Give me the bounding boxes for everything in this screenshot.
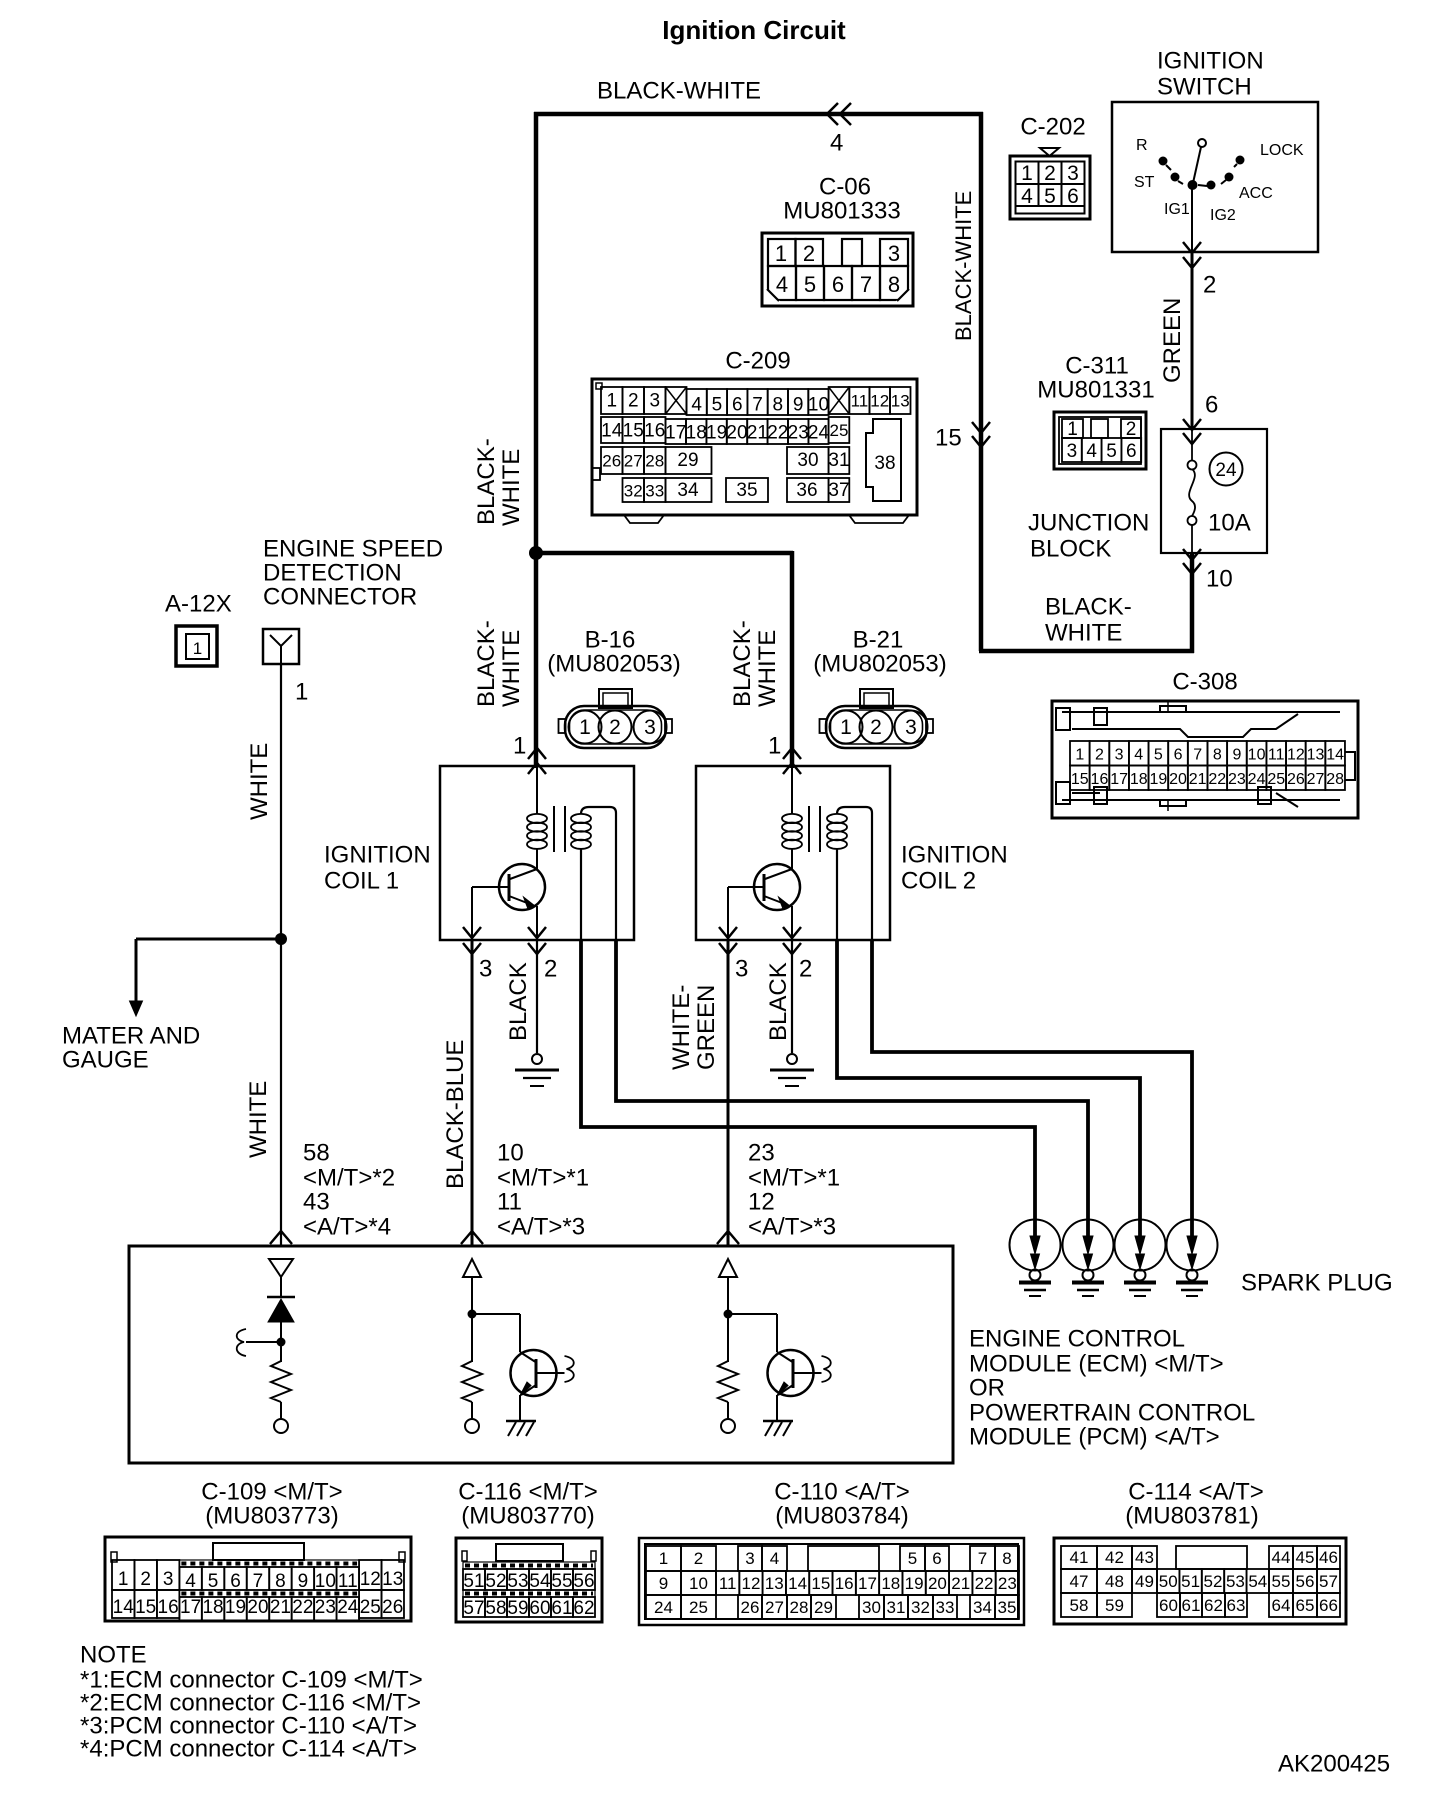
svg-text:9: 9 <box>298 1571 309 1592</box>
connector arrows into junction block pin 6 <box>1183 419 1201 430</box>
svg-text:54: 54 <box>529 1571 551 1592</box>
svg-text:27: 27 <box>624 452 643 471</box>
svg-text:21: 21 <box>270 1597 291 1618</box>
C-110 row1 pins 7-8 <box>970 1546 995 1571</box>
svg-text:1: 1 <box>118 1569 129 1590</box>
wire: BLACK-BLUE coil1 pin3 to ECM <box>471 940 474 1246</box>
svg-text:10: 10 <box>497 1140 524 1167</box>
svg-text:1: 1 <box>1067 419 1078 440</box>
C-110 row3 pins 26-29 <box>738 1595 762 1619</box>
connector arrows into ignition coil 2 pin 1 <box>783 748 801 759</box>
svg-text:9: 9 <box>659 1574 668 1593</box>
ignition coil 1 box <box>440 766 634 940</box>
svg-text:BLACK-: BLACK- <box>729 620 756 707</box>
wire: right vertical BLACK-WHITE from junction block loop <box>979 112 984 651</box>
svg-text:35: 35 <box>998 1598 1017 1617</box>
ignition switch box <box>1112 102 1318 252</box>
svg-text:17: 17 <box>180 1597 201 1618</box>
spark plug 1 <box>1010 1220 1061 1271</box>
C-308 side latch <box>1345 752 1355 780</box>
svg-text:20: 20 <box>726 423 747 444</box>
svg-text:25: 25 <box>360 1597 381 1618</box>
svg-text:47: 47 <box>1070 1572 1089 1591</box>
svg-text:13: 13 <box>765 1574 784 1593</box>
wire Q2 col3 <box>727 1277 729 1362</box>
wire: coil2 secondary to spark plug 3 <box>837 940 1140 1238</box>
C-209 row 4 pin 36 <box>787 478 829 502</box>
C-110 row3 pins 34-35 <box>970 1595 995 1619</box>
ignition coil 2 primary winding <box>791 766 793 814</box>
svg-text:3: 3 <box>1115 747 1124 764</box>
spark plug 3 ground <box>1124 1281 1156 1285</box>
svg-text:24: 24 <box>337 1597 359 1618</box>
svg-text:5: 5 <box>208 1571 219 1592</box>
wire to driver transistor Q1 col2 <box>472 1313 520 1315</box>
C-209 row 3 pin 31 <box>829 447 850 474</box>
svg-text:(MU803770): (MU803770) <box>461 1503 594 1530</box>
resistor Q2 col3 <box>718 1358 738 1402</box>
svg-text:ENGINE SPEED: ENGINE SPEED <box>263 536 443 563</box>
wire col1 <box>280 1277 282 1297</box>
svg-text:1: 1 <box>193 639 202 658</box>
svg-text:22: 22 <box>767 423 788 444</box>
svg-text:12: 12 <box>742 1574 761 1593</box>
C-114 row3 pins 64-66 <box>1269 1593 1293 1617</box>
svg-text:42: 42 <box>1105 1548 1124 1567</box>
C-209 keyed cell X1 <box>666 387 687 414</box>
svg-text:14: 14 <box>113 1597 135 1618</box>
svg-text:15: 15 <box>135 1597 156 1618</box>
connector arrow into ECM pin 10/11 <box>461 1231 483 1244</box>
engine speed detection connector symbol <box>263 629 299 664</box>
svg-text:GREEN: GREEN <box>693 985 720 1070</box>
svg-text:13: 13 <box>1307 747 1325 764</box>
svg-text:14: 14 <box>601 421 623 442</box>
svg-text:BLOCK: BLOCK <box>1030 536 1111 563</box>
svg-text:WHITE: WHITE <box>498 630 525 707</box>
C-110 row3 pins 30-33 <box>859 1595 884 1619</box>
svg-text:SWITCH: SWITCH <box>1157 74 1252 101</box>
fuse number circle 24 <box>1210 453 1243 486</box>
svg-text:IGNITION: IGNITION <box>1157 48 1264 75</box>
svg-text:58: 58 <box>303 1140 330 1167</box>
svg-text:22: 22 <box>292 1597 313 1618</box>
ECM / PCM box <box>129 1246 953 1463</box>
svg-text:25: 25 <box>1267 771 1285 788</box>
ignition coil 1 base wire to pin 3 <box>472 886 509 888</box>
wire to driver transistor Q2 col3 <box>728 1313 777 1315</box>
connector B-16 cavity 2 <box>599 711 632 744</box>
svg-text:36: 36 <box>796 480 817 501</box>
svg-text:MODULE (PCM) <A/T>: MODULE (PCM) <A/T> <box>969 1424 1220 1451</box>
connector C-06 body <box>762 233 913 306</box>
svg-text:3: 3 <box>479 956 492 983</box>
C-110 row1 pins 1-2 <box>646 1546 681 1571</box>
svg-text:58: 58 <box>485 1598 506 1619</box>
svg-text:2: 2 <box>803 241 815 266</box>
svg-text:21: 21 <box>747 423 768 444</box>
svg-text:57: 57 <box>463 1598 484 1619</box>
svg-text:7: 7 <box>253 1571 264 1592</box>
svg-text:MATER AND: MATER AND <box>62 1023 200 1050</box>
svg-text:B-21: B-21 <box>853 627 904 654</box>
svg-text:10: 10 <box>689 1574 708 1593</box>
connector B-16 side tabs <box>559 719 566 733</box>
C-116 hatch strips <box>463 1562 595 1569</box>
C-109 pins 14-26 <box>112 1590 134 1618</box>
svg-text:COIL 2: COIL 2 <box>901 868 976 895</box>
C-110 row1 blank <box>808 1546 879 1571</box>
connector B-16 cavity 3 <box>634 711 667 744</box>
C-209 row 1 pins 11-13 <box>849 387 869 414</box>
svg-text:55: 55 <box>1272 1572 1291 1591</box>
svg-text:10: 10 <box>1248 747 1266 764</box>
svg-text:IGNITION: IGNITION <box>901 842 1008 869</box>
contact dot IG2 <box>1207 181 1216 190</box>
svg-text:6: 6 <box>230 1571 241 1592</box>
svg-text:6: 6 <box>1205 392 1218 419</box>
C-311 latch cell <box>1091 419 1108 438</box>
resistor Q1 col2 <box>462 1358 482 1402</box>
C-209 row 3 pins 26-28 <box>601 447 623 474</box>
svg-text:7: 7 <box>860 272 872 297</box>
svg-text:26: 26 <box>382 1597 403 1618</box>
svg-text:13: 13 <box>382 1569 403 1590</box>
svg-text:13: 13 <box>891 392 910 411</box>
svg-text:AK200425: AK200425 <box>1278 1751 1390 1778</box>
ground Q2 col3 <box>763 1420 793 1423</box>
svg-text:59: 59 <box>1105 1596 1124 1615</box>
svg-text:51: 51 <box>1181 1572 1200 1591</box>
arrow to meter and gauge <box>130 1001 143 1016</box>
C-209 row 2 pin 25 <box>829 417 850 443</box>
svg-text:24: 24 <box>654 1598 673 1617</box>
svg-text:C-114 <A/T>: C-114 <A/T> <box>1128 1479 1264 1506</box>
connector C-110 body <box>639 1538 1024 1625</box>
C-114 row3 pins 60-63 <box>1157 1593 1180 1617</box>
wire: BLACK coil2 pin2 to ground <box>791 940 793 1053</box>
svg-text:A-12X: A-12X <box>165 591 232 618</box>
C-110 row2 pins 11-23 <box>716 1571 739 1595</box>
svg-text:19: 19 <box>905 1574 924 1593</box>
ignition coil 1 power transistor <box>499 864 545 910</box>
svg-text:WHITE: WHITE <box>1045 620 1122 647</box>
svg-text:C-116 <M/T>: C-116 <M/T> <box>458 1479 598 1506</box>
svg-text:23: 23 <box>748 1140 775 1167</box>
ignition coil 2 core <box>808 806 810 852</box>
svg-text:GAUGE: GAUGE <box>62 1047 149 1074</box>
svg-text:43: 43 <box>1135 1548 1154 1567</box>
svg-text:12: 12 <box>748 1189 775 1216</box>
wire: left vertical feed to ignition coils <box>534 112 539 768</box>
svg-text:32: 32 <box>911 1598 930 1617</box>
svg-text:66: 66 <box>1319 1596 1338 1615</box>
svg-text:53: 53 <box>1226 1572 1245 1591</box>
C-116 pins 51-56 <box>463 1569 485 1590</box>
svg-text:8: 8 <box>888 272 900 297</box>
ignition coil 2 base wire to pin 3 <box>728 886 764 888</box>
svg-text:C-109 <M/T>: C-109 <M/T> <box>201 1479 342 1506</box>
connector arrows at ignition coil 2 pin 2 <box>783 927 801 938</box>
contact dot ACC <box>1225 173 1234 182</box>
C-209 row 4 pins 32-33 <box>623 478 645 502</box>
C-109 hatch strips <box>179 1560 359 1567</box>
svg-text:<M/T>*2: <M/T>*2 <box>303 1165 395 1192</box>
svg-text:6: 6 <box>1126 441 1137 462</box>
driver transistor Q1 col2 <box>511 1350 557 1396</box>
C-311 pin 2 <box>1121 419 1141 438</box>
ignition coil 1 secondary winding <box>571 814 591 823</box>
wire: WHITE-GREEN coil2 pin3 to ECM <box>727 940 730 1246</box>
svg-text:4: 4 <box>185 1571 196 1592</box>
svg-text:CONNECTOR: CONNECTOR <box>263 584 417 611</box>
ignition coil 1 primary winding <box>536 766 538 814</box>
svg-text:26: 26 <box>741 1598 760 1617</box>
svg-text:1: 1 <box>1075 747 1084 764</box>
svg-text:28: 28 <box>790 1598 809 1617</box>
svg-text:6: 6 <box>1067 185 1079 208</box>
C-209 row 4 pin 34 <box>666 478 712 502</box>
ECM terminal triangle Q2 col3 <box>719 1259 737 1277</box>
svg-text:BLACK-: BLACK- <box>1045 594 1132 621</box>
svg-text:61: 61 <box>1182 1596 1201 1615</box>
svg-text:12: 12 <box>360 1569 381 1590</box>
svg-text:<M/T>*1: <M/T>*1 <box>497 1165 589 1192</box>
svg-text:15: 15 <box>623 421 644 442</box>
svg-text:52: 52 <box>485 1571 506 1592</box>
C-308 pin grid rows 1-2 <box>1070 741 1090 766</box>
svg-text:18: 18 <box>686 423 707 444</box>
svg-text:1: 1 <box>1021 162 1033 185</box>
svg-text:WHITE: WHITE <box>498 449 525 526</box>
junction block box <box>1161 429 1267 553</box>
svg-text:8: 8 <box>275 1571 286 1592</box>
svg-text:(MU803773): (MU803773) <box>205 1503 338 1530</box>
svg-text:2: 2 <box>694 1549 703 1568</box>
svg-text:MU801333: MU801333 <box>783 198 900 225</box>
svg-text:5: 5 <box>1106 441 1117 462</box>
svg-text:3: 3 <box>735 956 748 983</box>
svg-text:11: 11 <box>1268 747 1285 764</box>
C-311 pins 3-6 <box>1062 438 1082 462</box>
wire: WHITE from detection connector <box>280 664 282 1246</box>
svg-text:28: 28 <box>645 452 664 471</box>
svg-text:22: 22 <box>1208 771 1226 788</box>
svg-text:DETECTION: DETECTION <box>263 560 402 587</box>
svg-text:17: 17 <box>665 423 686 444</box>
svg-text:BLACK-WHITE: BLACK-WHITE <box>951 191 976 341</box>
svg-text:6: 6 <box>1174 747 1183 764</box>
ignition coil 2 secondary winding <box>827 814 847 823</box>
connector C-308 body <box>1052 701 1358 818</box>
junction node col1 <box>277 1338 286 1347</box>
C-110 row1 pins 5-6 <box>900 1546 925 1571</box>
svg-text:9: 9 <box>1232 747 1241 764</box>
svg-text:30: 30 <box>797 450 818 471</box>
connector B-21 cavity 3 <box>895 711 928 744</box>
fuse element <box>1188 461 1197 470</box>
C-109 pins 1-13 <box>112 1560 134 1590</box>
C-308 top lock rail <box>1062 711 1340 713</box>
C-114 row1 pins 44-46 <box>1269 1546 1293 1569</box>
svg-text:C-202: C-202 <box>1020 114 1085 141</box>
svg-text:20: 20 <box>247 1597 268 1618</box>
ECM terminal triangle col1 <box>269 1259 293 1277</box>
svg-text:4: 4 <box>1086 441 1097 462</box>
svg-text:3: 3 <box>1067 441 1078 462</box>
fuse 24 wire <box>1191 429 1193 460</box>
connector B-16 oval body <box>565 706 666 748</box>
svg-text:ENGINE CONTROL: ENGINE CONTROL <box>969 1326 1185 1353</box>
svg-text:C-311: C-311 <box>1065 353 1129 380</box>
svg-text:BLACK-BLUE: BLACK-BLUE <box>442 1040 469 1189</box>
svg-text:IG2: IG2 <box>1210 207 1236 224</box>
spark plug 2 ground <box>1072 1281 1104 1285</box>
svg-text:4: 4 <box>691 395 702 416</box>
connector arrows at ignition coil 2 pin 3 <box>719 927 737 938</box>
svg-text:1: 1 <box>606 391 617 412</box>
svg-text:C-110 <A/T>: C-110 <A/T> <box>774 1479 910 1506</box>
wire: top BLACK-WHITE horizontal feed <box>534 112 983 117</box>
svg-text:ACC: ACC <box>1239 185 1273 202</box>
C-06 latch cell <box>842 239 862 266</box>
svg-text:56: 56 <box>1296 1572 1315 1591</box>
junction node Q2 col3 <box>724 1310 733 1319</box>
wire arrow: leftward flow on top feed <box>827 103 838 125</box>
svg-text:31: 31 <box>828 450 849 471</box>
svg-text:(MU802053): (MU802053) <box>547 651 680 678</box>
svg-text:16: 16 <box>158 1597 179 1618</box>
svg-text:MU801331: MU801331 <box>1037 377 1154 404</box>
connector C-202 body <box>1010 156 1090 219</box>
connector arrows at ignition coil 1 pin 3 <box>463 927 481 938</box>
svg-text:WHITE: WHITE <box>246 743 273 820</box>
spark plug 4 ground <box>1176 1281 1208 1285</box>
C-06 bottom row cells <box>768 266 796 300</box>
contact dot ST <box>1171 173 1180 182</box>
junction node Q1 col2 <box>468 1310 477 1319</box>
connector arrow 15 on right feed <box>972 422 990 433</box>
svg-text:LOCK: LOCK <box>1260 142 1304 159</box>
svg-text:1: 1 <box>840 716 852 739</box>
svg-text:11: 11 <box>497 1189 522 1216</box>
A-12X connector symbol <box>176 626 217 666</box>
C-114 row2 pins 55-57 <box>1269 1569 1293 1593</box>
svg-text:26: 26 <box>602 452 621 471</box>
svg-text:15: 15 <box>811 1574 830 1593</box>
svg-text:*4:PCM connector C-114 <A/T>: *4:PCM connector C-114 <A/T> <box>80 1736 417 1763</box>
svg-text:32: 32 <box>624 482 643 501</box>
wire: bottom horizontal from junction block pin 10 <box>979 649 1194 654</box>
svg-text:3: 3 <box>1067 162 1079 185</box>
resistor R1 <box>271 1358 291 1402</box>
svg-text:7: 7 <box>752 395 763 416</box>
connector arrows at ignition coil 1 pin 2 <box>528 927 546 938</box>
wire Q1 col2 <box>471 1277 473 1362</box>
connector C-109 body <box>105 1537 411 1621</box>
wire: BLACK coil1 pin2 to ground <box>536 940 538 1053</box>
svg-text:18: 18 <box>202 1597 223 1618</box>
svg-text:2: 2 <box>1095 747 1104 764</box>
svg-text:1: 1 <box>513 733 526 760</box>
svg-text:21: 21 <box>1189 771 1207 788</box>
svg-text:<A/T>*3: <A/T>*3 <box>748 1214 836 1241</box>
C-116 pins 57-62 <box>463 1597 485 1617</box>
svg-text:16: 16 <box>1091 771 1109 788</box>
svg-text:MODULE (ECM) <M/T>: MODULE (ECM) <M/T> <box>969 1351 1224 1378</box>
svg-text:NOTE: NOTE <box>80 1642 147 1669</box>
svg-text:OR: OR <box>969 1375 1005 1402</box>
svg-text:24: 24 <box>1215 460 1237 481</box>
C-114 row1 latch cell <box>1176 1546 1247 1569</box>
svg-text:11: 11 <box>719 1574 737 1593</box>
svg-text:29: 29 <box>677 450 698 471</box>
connector B-21 side tabs <box>820 719 827 733</box>
svg-text:55: 55 <box>551 1571 572 1592</box>
svg-text:7: 7 <box>1193 747 1202 764</box>
svg-text:30: 30 <box>862 1598 881 1617</box>
svg-text:8: 8 <box>1213 747 1222 764</box>
svg-text:19: 19 <box>706 423 727 444</box>
svg-text:6: 6 <box>832 272 844 297</box>
svg-text:2: 2 <box>628 391 639 412</box>
connector C-311 body <box>1054 412 1146 469</box>
wire: switch output IG1 <box>1191 189 1193 252</box>
wire: branch to ignition coil 2 <box>534 551 793 556</box>
internal terminal circle Q2 col3 <box>721 1419 735 1433</box>
ignition coil 2 power transistor <box>754 864 800 910</box>
C-209 row 4 pin 37 <box>829 478 850 502</box>
svg-text:51: 51 <box>463 1571 484 1592</box>
spark plug 1 ground <box>1019 1281 1051 1285</box>
svg-text:4: 4 <box>770 1549 779 1568</box>
contact dot R <box>1159 157 1168 166</box>
internal terminal circle col1 <box>274 1419 288 1433</box>
svg-text:3: 3 <box>745 1549 754 1568</box>
svg-text:12: 12 <box>870 392 889 411</box>
svg-text:BLACK: BLACK <box>505 962 532 1041</box>
svg-text:18: 18 <box>1130 771 1148 788</box>
C-209 row 1 pins 1-3 <box>601 387 623 414</box>
driver transistor Q2 col3 <box>768 1350 814 1396</box>
connector B-21 boot tab <box>860 689 893 708</box>
svg-text:BLACK: BLACK <box>765 962 792 1041</box>
C-209 row 4 pin 35 <box>726 478 768 502</box>
svg-text:23: 23 <box>315 1597 336 1618</box>
svg-text:3: 3 <box>644 716 656 739</box>
ignition coil 1 core <box>553 806 555 852</box>
base continuation squiggle Q1 col2 <box>536 1372 565 1374</box>
wire: vertical from fuse pin 10 down <box>1190 553 1195 653</box>
svg-text:GREEN: GREEN <box>1159 298 1186 383</box>
svg-text:BLACK-: BLACK- <box>473 620 500 707</box>
svg-text:46: 46 <box>1319 1548 1338 1567</box>
C-308 bottom lock rail <box>1062 799 1340 801</box>
svg-text:<A/T>*4: <A/T>*4 <box>303 1214 391 1241</box>
connector arrows at switch exit <box>1183 242 1201 253</box>
svg-text:33: 33 <box>936 1598 955 1617</box>
connector arrow into ECM pin 23/12 <box>717 1231 739 1244</box>
ground coil 1 <box>532 1054 542 1064</box>
svg-text:26: 26 <box>1287 771 1305 788</box>
svg-text:5: 5 <box>1154 747 1163 764</box>
svg-text:1: 1 <box>775 241 787 266</box>
wire: coil2 secondary to spark plug 4 <box>872 940 1192 1238</box>
connector arrows into ignition coil 1 pin 1 <box>528 748 546 759</box>
svg-text:SPARK PLUG: SPARK PLUG <box>1241 1270 1393 1297</box>
C-209 pin 38 cell <box>866 419 901 501</box>
svg-text:IGNITION: IGNITION <box>324 842 431 869</box>
